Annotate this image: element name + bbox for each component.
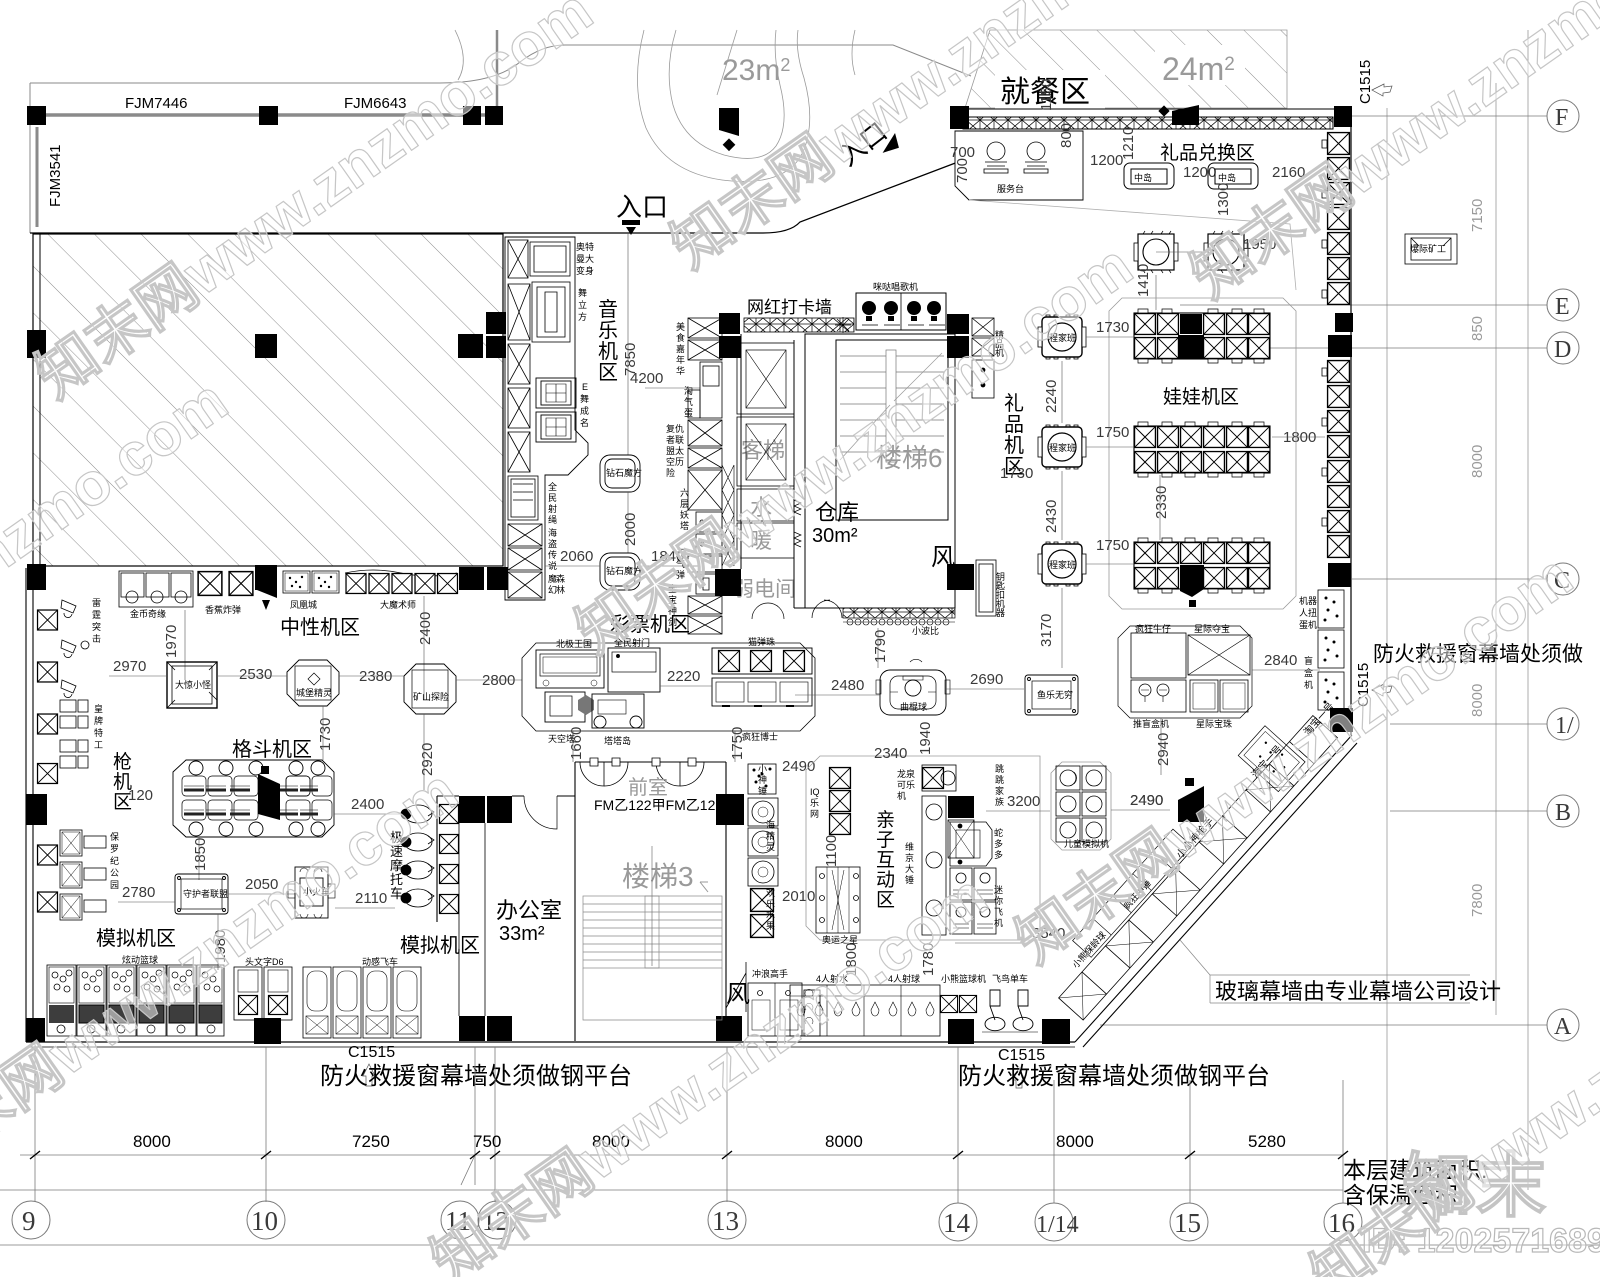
svg-text:1730: 1730 (1096, 319, 1129, 336)
column (716, 794, 744, 825)
boutique machines right of karaoke (972, 318, 994, 398)
svg-text:说: 说 (548, 560, 557, 571)
svg-text:迷: 迷 (994, 884, 1003, 895)
svg-text:皇: 皇 (94, 703, 103, 714)
svg-text:服务台: 服务台 (997, 183, 1024, 194)
svg-text:15: 15 (1174, 1208, 1201, 1238)
music machines outline (505, 237, 588, 600)
claw row 3 (1134, 538, 1270, 607)
svg-text:模拟机区: 模拟机区 (400, 934, 480, 957)
cola machine (922, 765, 956, 791)
svg-text:8000: 8000 (1469, 445, 1486, 478)
crazy doctor (712, 678, 812, 706)
svg-text:跳: 跳 (995, 763, 1004, 774)
svg-text:1730: 1730 (317, 718, 334, 751)
grid line F (1100, 116, 1547, 1025)
column (487, 1016, 512, 1041)
svg-text:儿童模拟机: 儿童模拟机 (1064, 838, 1109, 849)
svg-text:华: 华 (676, 365, 685, 376)
svg-text:舞: 舞 (578, 288, 587, 298)
svg-text:D: D (1554, 337, 1571, 363)
diagonal machines strip (1038, 697, 1338, 1020)
svg-text:空历: 空历 (666, 456, 684, 467)
snake machine (950, 822, 992, 866)
svg-text:7250: 7250 (352, 1132, 390, 1151)
road column black (719, 108, 739, 136)
svg-text:1210: 1210 (1120, 127, 1137, 160)
svg-text:2430: 2430 (1043, 500, 1060, 533)
svg-text:800: 800 (1058, 123, 1075, 148)
bubble A (1547, 1009, 1579, 1041)
svg-text:神: 神 (758, 774, 767, 785)
right truss strip lower (1328, 361, 1350, 558)
svg-text:机器: 机器 (1299, 595, 1317, 606)
svg-text:气: 气 (684, 396, 693, 407)
column (26, 794, 47, 825)
svg-text:C1515: C1515 (998, 1047, 1045, 1064)
svg-text:龙泉: 龙泉 (897, 768, 915, 779)
svg-text:C1515: C1515 (348, 1044, 395, 1061)
svg-text:林: 林 (556, 584, 565, 595)
svg-text:2330: 2330 (1153, 486, 1170, 519)
column (459, 796, 485, 823)
dim leader lines (1156, 252, 1203, 310)
svg-text:射: 射 (548, 503, 557, 514)
svg-text:1970: 1970 (163, 625, 180, 658)
svg-text:1200: 1200 (1183, 164, 1216, 181)
iq net machines (830, 768, 851, 835)
bubble 10 (247, 1201, 285, 1239)
magician boxes (345, 570, 457, 593)
svg-text:E: E (1555, 294, 1570, 320)
column (948, 1019, 974, 1044)
svg-text:700: 700 (954, 158, 971, 183)
svg-text:程家班: 程家班 (1049, 442, 1076, 453)
svg-text:亲子互动区: 亲子互动区 (876, 809, 895, 911)
svg-text:多: 多 (994, 838, 1003, 849)
stair6 block outline (805, 334, 955, 608)
svg-text:盒: 盒 (1304, 667, 1313, 678)
svg-text:猫弹珠: 猫弹珠 (748, 636, 775, 647)
service counter outline (955, 131, 1083, 200)
svg-text:1100: 1100 (823, 835, 840, 867)
svg-text:13: 13 (712, 1206, 739, 1236)
svg-text:1800: 1800 (1283, 429, 1316, 446)
column (947, 336, 969, 358)
fish machine (1025, 675, 1078, 715)
svg-text:2010: 2010 (782, 888, 815, 905)
svg-text:盲: 盲 (1304, 655, 1313, 666)
cat marbles (712, 648, 812, 674)
svg-text:30m²: 30m² (812, 525, 858, 547)
column (255, 334, 277, 358)
C1515 arrow (1372, 84, 1392, 96)
hammer machine small (748, 764, 776, 794)
svg-text:防火救援窗幕墙处须做钢平台: 防火救援窗幕墙处须做钢平台 (958, 1063, 1270, 1090)
machine dance cube (508, 282, 570, 342)
svg-text:淘: 淘 (684, 385, 693, 396)
column (948, 796, 974, 818)
svg-text:奥特: 奥特 (576, 241, 594, 252)
top truss wall (963, 117, 1333, 129)
svg-text:防火救援窗幕墙处须做钢平台: 防火救援窗幕墙处须做钢平台 (320, 1063, 632, 1090)
bubble D (1547, 332, 1579, 364)
svg-text:蛇: 蛇 (994, 827, 1003, 838)
svg-text:小波比: 小波比 (912, 625, 939, 636)
svg-text:2220: 2220 (667, 668, 700, 685)
column (487, 796, 512, 823)
door office (524, 796, 557, 829)
svg-text:变身: 变身 (576, 265, 594, 276)
svg-text:曲棍球: 曲棍球 (900, 701, 927, 712)
kid simulator hexagon (1051, 762, 1111, 850)
svg-text:灵: 灵 (766, 842, 775, 852)
svg-text:蛋机: 蛋机 (1299, 619, 1317, 630)
column (458, 334, 483, 358)
gacha machines dotted (1318, 590, 1344, 710)
svg-text:1750: 1750 (729, 727, 746, 760)
svg-text:六: 六 (680, 487, 689, 498)
viking hammer column (922, 796, 974, 935)
svg-text:跳: 跳 (995, 774, 1004, 785)
svg-text:1850: 1850 (192, 838, 209, 871)
svg-text:雷: 雷 (92, 598, 101, 608)
machine boxes mid (508, 344, 530, 428)
bubble 12 (478, 1201, 516, 1239)
svg-text:礼品兑换区: 礼品兑换区 (1160, 142, 1255, 164)
svg-text:罗: 罗 (110, 844, 119, 854)
svg-text:10: 10 (251, 1206, 278, 1236)
svg-text:2490: 2490 (1130, 792, 1163, 809)
candy machine 1 (1134, 231, 1178, 273)
mini planes (950, 868, 996, 934)
mini truss bottom of stair6 (843, 608, 955, 618)
column (459, 1016, 485, 1041)
wall office top (437, 762, 726, 1041)
svg-text:E: E (582, 382, 588, 392)
svg-text:中岛: 中岛 (1218, 172, 1236, 183)
svg-text:格斗机区: 格斗机区 (232, 738, 312, 761)
svg-text:鱼乐无穷: 鱼乐无穷 (1037, 689, 1073, 700)
svg-text:飞鸟单车: 飞鸟单车 (992, 973, 1028, 984)
column (259, 106, 278, 125)
door warehouse (812, 600, 830, 618)
dotted machines on diagonal (1238, 726, 1305, 792)
bubble C (1547, 563, 1579, 595)
svg-text:维: 维 (905, 841, 914, 852)
svg-text:钻石魔方: 钻石魔方 (606, 467, 642, 478)
machine rope (508, 432, 538, 520)
svg-text:1750: 1750 (1096, 424, 1129, 441)
svg-text:机: 机 (1304, 679, 1313, 690)
sea sprite machines (748, 798, 778, 886)
entrance label rotated (833, 112, 903, 179)
warehouse outline walls (794, 334, 805, 608)
claw row 1 (1134, 309, 1270, 363)
machine ultraman (508, 240, 570, 278)
column (485, 106, 503, 125)
svg-text:7800: 7800 (1469, 884, 1486, 917)
svg-text:1300: 1300 (1215, 183, 1232, 216)
svg-text:盟太: 盟太 (666, 445, 684, 456)
svg-text:妖: 妖 (680, 509, 689, 520)
svg-text:C1515: C1515 (1357, 60, 1374, 104)
svg-text:客梯: 客梯 (741, 438, 785, 463)
svg-text:食: 食 (676, 332, 685, 343)
anteroom doors (580, 758, 704, 786)
coin machines (119, 571, 193, 607)
claw row 2 (1134, 422, 1270, 477)
column (1335, 313, 1353, 332)
svg-text:1/14: 1/14 (1036, 1212, 1079, 1238)
left truss machines column (38, 610, 58, 912)
svg-text:咪哒唱歌机: 咪哒唱歌机 (873, 281, 918, 292)
column (719, 313, 740, 334)
svg-text:凤凰城: 凤凰城 (290, 600, 317, 610)
svg-text:海: 海 (548, 527, 557, 538)
machine box right (1405, 234, 1457, 264)
svg-text:传: 传 (548, 549, 557, 560)
train machine (288, 867, 335, 918)
svg-text:办公室: 办公室 (496, 898, 562, 923)
dim lines music (628, 233, 700, 455)
svg-text:A: A (1554, 1014, 1572, 1040)
svg-text:星际宝珠: 星际宝珠 (1196, 718, 1232, 729)
bubble 1/E (1547, 708, 1579, 740)
svg-text:2340: 2340 (874, 745, 907, 762)
svg-text:2530: 2530 (239, 666, 272, 683)
right wall line (1350, 127, 1352, 735)
guardian machine (175, 874, 228, 914)
svg-text:矿山探险: 矿山探险 (413, 691, 449, 702)
gun machines figures (61, 600, 89, 698)
svg-text:京: 京 (905, 852, 914, 863)
bubble 13 (708, 1201, 746, 1239)
allshoot (608, 648, 660, 692)
snowflake deco (835, 317, 851, 333)
svg-text:1150: 1150 (1038, 79, 1055, 111)
svg-text:前室: 前室 (628, 776, 668, 799)
svg-text:特: 特 (94, 727, 103, 738)
gun machine pair boxes (60, 700, 88, 768)
island 1 (1124, 163, 1174, 189)
svg-text:8000: 8000 (1469, 684, 1486, 717)
stair6 treads (840, 350, 944, 462)
svg-text:750: 750 (473, 1132, 501, 1151)
mics (862, 301, 941, 321)
svg-text:民: 民 (548, 493, 557, 503)
column (486, 336, 506, 358)
column (950, 106, 969, 129)
hockey machine (876, 659, 950, 715)
happy fruit machines (751, 889, 774, 938)
svg-text:2060: 2060 (560, 548, 593, 565)
svg-text:2690: 2690 (970, 671, 1003, 688)
svg-text:8000: 8000 (133, 1132, 171, 1151)
karaoke box (856, 293, 946, 330)
svg-text:2970: 2970 (113, 658, 146, 675)
svg-text:B: B (1555, 800, 1571, 826)
column (27, 564, 46, 590)
svg-text:2780: 2780 (122, 884, 155, 901)
svg-text:大惊小怪: 大惊小怪 (175, 679, 211, 690)
bubble F (1547, 100, 1579, 132)
svg-text:850: 850 (1469, 316, 1486, 341)
phoenix dotted boxes (283, 571, 339, 593)
svg-text:钥匙扣机器: 钥匙扣机器 (995, 571, 1005, 617)
curtain wall FJM3541 (36, 127, 39, 227)
curtain wall FJM7446/FJM6643 (35, 113, 500, 117)
candy machine 2 (1204, 231, 1248, 273)
svg-text:1660: 1660 (568, 727, 585, 760)
column (486, 312, 506, 334)
moto bikes (401, 805, 459, 914)
svg-text:园: 园 (110, 880, 119, 890)
pirate boxes (508, 524, 542, 598)
bottom wall (26, 1041, 1075, 1043)
svg-text:牌: 牌 (94, 715, 103, 726)
small ticks left of strip (1322, 140, 1327, 526)
svg-text:舞: 舞 (580, 394, 589, 404)
svg-text:盗: 盗 (548, 538, 557, 549)
site boundary top (30, 30, 971, 233)
basketball cabinets (47, 965, 76, 1036)
svg-text:方: 方 (578, 311, 587, 322)
tata island (592, 694, 644, 728)
big square machine (167, 662, 217, 708)
gift claw machine 1 (1038, 315, 1086, 359)
svg-text:冲浪高手: 冲浪高手 (752, 968, 788, 979)
svg-text:FJM7446: FJM7446 (125, 95, 188, 112)
svg-text:香蕉炸弹: 香蕉炸弹 (205, 604, 241, 615)
initial d cabinets (234, 967, 292, 1020)
column (459, 567, 484, 590)
svg-text:嘉: 嘉 (676, 343, 685, 354)
arctic kingdom (536, 650, 604, 688)
column (1042, 1019, 1070, 1044)
main slab edge with diagonal to top right (30, 162, 958, 233)
svg-text:FM乙122甲FM乙1221: FM乙122甲FM乙1221 (594, 797, 731, 813)
dim leader lines mid (109, 676, 522, 790)
svg-text:水: 水 (766, 909, 775, 920)
svg-text:24m2: 24m2 (1162, 51, 1235, 87)
svg-text:年: 年 (676, 354, 685, 365)
column (947, 564, 974, 590)
entrance arrow (622, 220, 640, 235)
olympic star machines (816, 867, 860, 933)
svg-text:海: 海 (766, 819, 775, 830)
bubble 14 (939, 1203, 977, 1241)
svg-text:守护者联盟: 守护者联盟 (183, 888, 228, 899)
column (487, 567, 508, 590)
svg-text:F: F (1555, 105, 1568, 131)
svg-text:精: 精 (766, 830, 775, 841)
racing cabinets (303, 967, 421, 1038)
dimension line (0, 1042, 1600, 1245)
svg-text:2110: 2110 (355, 890, 387, 907)
wedge black (257, 568, 277, 598)
svg-text:城堡精灵: 城堡精灵 (296, 687, 332, 698)
svg-text:美: 美 (676, 321, 685, 332)
svg-text:中岛: 中岛 (1134, 172, 1152, 183)
svg-text:2490: 2490 (782, 758, 815, 775)
mining machine (404, 664, 456, 714)
svg-text:爆际矿工: 爆际矿工 (1410, 243, 1446, 254)
svg-text:网红打卡墙: 网红打卡墙 (747, 298, 832, 317)
svg-text:IQ: IQ (810, 787, 820, 797)
svg-text:1750: 1750 (1096, 537, 1129, 554)
svg-text:欢: 欢 (766, 887, 775, 898)
svg-text:程家班: 程家班 (1049, 559, 1076, 570)
column (1334, 106, 1352, 127)
svg-text:音乐机区: 音乐机区 (598, 298, 618, 384)
right grid verticals (1387, 30, 1528, 1190)
svg-text:9: 9 (22, 1206, 36, 1236)
svg-text:5280: 5280 (1248, 1132, 1286, 1151)
svg-text:你: 你 (994, 895, 1003, 906)
jurassic machines (60, 830, 106, 920)
claw zone outline (1109, 298, 1296, 609)
svg-text:2380: 2380 (359, 668, 392, 685)
svg-text:塔塔岛: 塔塔岛 (604, 735, 631, 746)
svg-text:23m2: 23m2 (722, 54, 790, 87)
svg-text:2240: 2240 (1043, 380, 1060, 413)
svg-text:网: 网 (810, 809, 819, 819)
svg-text:2400: 2400 (417, 612, 434, 645)
svg-text:FJM3541: FJM3541 (47, 144, 64, 207)
skytower (545, 692, 585, 722)
wedge at truss (1172, 105, 1199, 125)
zone outline (806, 756, 1040, 940)
column (719, 336, 741, 358)
column (27, 330, 46, 358)
svg-text:楼梯3: 楼梯3 (622, 861, 694, 892)
gift claw machine 2 (1038, 425, 1086, 469)
svg-text:蛋: 蛋 (684, 408, 693, 418)
svg-text:8000: 8000 (825, 1132, 863, 1151)
svg-text:曼大: 曼大 (576, 253, 594, 264)
svg-text:果: 果 (766, 921, 775, 931)
column (255, 565, 277, 590)
entrance road curves (455, 30, 855, 181)
svg-text:小熊篮球机: 小熊篮球机 (941, 973, 986, 984)
svg-text:保: 保 (110, 831, 119, 842)
svg-text:1/: 1/ (1555, 713, 1574, 739)
svg-text:险: 险 (666, 467, 675, 478)
column (716, 1016, 742, 1041)
column (715, 569, 741, 596)
water shooting row (790, 985, 940, 1036)
svg-text:2800: 2800 (482, 672, 515, 689)
svg-text:14: 14 (943, 1208, 971, 1238)
svg-text:成: 成 (580, 405, 589, 416)
svg-text:可乐: 可乐 (897, 779, 915, 790)
svg-text:公: 公 (110, 868, 119, 878)
svg-text:绳: 绳 (548, 514, 557, 525)
svg-text:纪: 纪 (110, 855, 119, 866)
bubble 1/14 (1035, 1203, 1073, 1241)
photo wall strip (744, 318, 854, 332)
left wall (26, 568, 33, 1042)
svg-text:族: 族 (995, 796, 1004, 807)
ticks (30, 1151, 1348, 1159)
diamond cube machine 1 (600, 455, 640, 492)
svg-text:乐: 乐 (766, 898, 775, 909)
svg-text:1790: 1790 (872, 630, 889, 663)
fighting cluster (173, 760, 334, 837)
svg-text:者联: 者联 (666, 435, 684, 445)
stair3 treads (583, 846, 722, 968)
